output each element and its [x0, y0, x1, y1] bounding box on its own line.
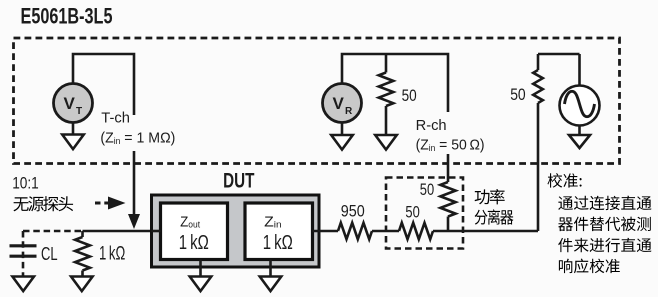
svg-text:CL: CL	[41, 243, 58, 264]
capacitor CL	[10, 246, 37, 256]
wire: DUT out	[313, 230, 339, 233]
svg-text:50: 50	[420, 181, 434, 199]
wire: source node down to divider output	[537, 103, 540, 231]
resistor 50 (R-ch termination)	[385, 54, 388, 73]
wire: DUT input stub over body	[152, 230, 161, 233]
DUT Zout block	[161, 203, 228, 260]
probe arrow (dashed)	[95, 202, 108, 205]
wire: R-ch node down toward power divider	[447, 154, 450, 182]
wire 950 to 50	[372, 230, 399, 233]
ground below V_T	[72, 123, 75, 135]
DUT Zin block	[245, 203, 313, 260]
svg-text:10:1: 10:1	[12, 174, 39, 192]
resistor 1 kOhm (probe load)	[81, 231, 84, 237]
svg-text:R: R	[345, 106, 353, 117]
wire: source top bar	[538, 53, 580, 56]
ground stub Zin	[269, 260, 272, 277]
svg-text:E5061B-3L5: E5061B-3L5	[21, 4, 113, 29]
svg-text:1 kΩ: 1 kΩ	[179, 231, 209, 254]
svg-text:50: 50	[405, 204, 419, 222]
instrument box E5061B-3L5 (dashed outline)	[14, 38, 620, 164]
svg-text:(Zin = 1 MΩ): (Zin = 1 MΩ)	[100, 129, 175, 146]
voltmeter V_T	[54, 84, 93, 123]
wire: V_T top to T-ch node	[73, 54, 134, 115]
ground below 50	[375, 135, 397, 150]
svg-text:R-ch: R-ch	[416, 117, 447, 134]
wire: CL branch (dashed)	[23, 230, 83, 233]
wire 50 to source node	[433, 230, 538, 233]
wire: T-ch node down to DUT input (with arrow)	[133, 151, 136, 216]
ground below 1 kOhm	[71, 277, 93, 292]
svg-text:V: V	[64, 94, 76, 113]
svg-text:(Zin = 50 Ω): (Zin = 50 Ω)	[416, 137, 485, 154]
ground below CL	[12, 277, 34, 292]
arrowhead into DUT node	[128, 214, 140, 229]
note: calibration text	[547, 173, 562, 188]
resistor 50 (series)	[399, 223, 433, 239]
wire: main node to DUT (solid)	[83, 230, 163, 233]
svg-text:DUT: DUT	[223, 169, 254, 193]
resistor 50 (divider shunt)	[440, 182, 455, 217]
svg-text:T: T	[76, 106, 82, 117]
svg-text:V: V	[333, 94, 345, 113]
ground below V_R	[341, 123, 344, 136]
label gong-lv fen-li-qi (power divider)	[475, 189, 490, 204]
ground below AC source	[578, 126, 581, 137]
DUT body	[152, 195, 320, 267]
label wu-yuan-tan-tou (passive probe)	[13, 197, 28, 211]
svg-text:1 kΩ: 1 kΩ	[99, 244, 125, 265]
power divider dashed box	[386, 178, 463, 249]
wire: V_R top to R-ch node	[342, 54, 448, 112]
AC source	[578, 54, 581, 86]
svg-text:T-ch: T-ch	[101, 110, 130, 127]
svg-text:950: 950	[341, 202, 365, 220]
voltmeter V_R	[323, 84, 362, 123]
resistor 50 (source)	[537, 54, 540, 70]
svg-text:50: 50	[510, 86, 526, 104]
ground stub Zout	[199, 260, 202, 277]
svg-text:50: 50	[402, 87, 417, 105]
resistor 950	[338, 223, 372, 239]
svg-text:1 kΩ: 1 kΩ	[263, 231, 293, 254]
